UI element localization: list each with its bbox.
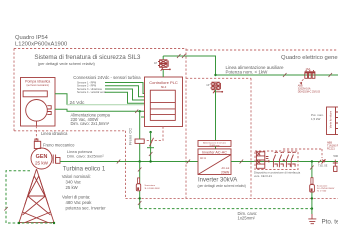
svg-text:Varie forniture: Varie forniture (329, 110, 333, 128)
contactor K1 Freno CC coil (128, 128, 145, 145)
surge arrester F1 (136, 162, 160, 209)
label Alimentazione pompa (71, 113, 111, 127)
svg-text:Tri 1 T100: Tri 1 T100 (317, 190, 327, 193)
enclosure Quadro IP54 label (15, 35, 67, 47)
PLC U1 controller box (145, 77, 183, 127)
svg-text:(se freno meccanico): (se freno meccanico) (27, 84, 50, 87)
svg-text:Inverter 30kVA: Inverter 30kVA (198, 178, 237, 184)
svg-text:20kW: 20kW (221, 170, 229, 174)
contact SPI 4 (291, 152, 295, 167)
wire 24Vdc (55, 94, 67, 105)
contact K1 (147, 131, 154, 162)
coupling generator output (53, 155, 60, 164)
svg-text:Connessioni 24Vdc - sensori tu: Connessioni 24Vdc - sensori turbina (73, 75, 141, 80)
svg-text:Freno CC: Freno CC (128, 128, 133, 145)
svg-text:Pto. terra: Pto. terra (322, 218, 338, 225)
svg-text:340 Vac: 340 Vac (66, 179, 82, 184)
wire sensor 2 (105, 86, 145, 97)
title Sistema di frenatura (34, 54, 141, 66)
label Connessioni sensori (73, 75, 141, 94)
surge arrester F2 (310, 162, 335, 215)
breaker Q1 1P (154, 60, 171, 71)
svg-text:(per dettagli vede schemi rela: (per dettagli vede schemi relativi) (198, 184, 246, 188)
svg-text:potenza sec. Inverter: potenza sec. Inverter (66, 205, 107, 210)
svg-text:T101 SE: T101 SE (318, 164, 328, 167)
power bus wire (60, 160, 198, 164)
svg-text:Pompa idraulica: Pompa idraulica (25, 79, 50, 83)
svg-text:Dim. cavo: 2x1,5mm²: Dim. cavo: 2x1,5mm² (71, 121, 110, 126)
wire coil to bus (139, 111, 141, 161)
svg-text:L1200xP600xA1900: L1200xP600xA1900 (15, 42, 67, 48)
svg-text:Controllore PLC: Controllore PLC (149, 80, 178, 85)
contact SPI 3 (286, 152, 290, 167)
wire service link (215, 146, 217, 149)
svg-text:24 Vdc: 24 Vdc (70, 100, 86, 106)
svg-text:3L L/10/40 500V: 3L L/10/40 500V (145, 188, 161, 190)
svg-text:Scaricatore: Scaricatore (145, 184, 156, 187)
svg-text:Inverter AC-AC: Inverter AC-AC (202, 150, 227, 154)
enclosure Quadro IP54 dashed outline (14, 49, 186, 199)
svg-text:Scaricatore: Scaricatore (317, 184, 328, 187)
earth bus dashed (140, 208, 312, 210)
svg-text:Turbina eolico 1: Turbina eolico 1 (63, 167, 106, 173)
svg-text:1P: 1P (154, 61, 157, 65)
brake B1 mechanical brake (34, 139, 40, 149)
svg-text:250W max: 250W max (210, 145, 221, 147)
wire sensor 3 (105, 89, 145, 100)
label Linea potenza (67, 149, 104, 158)
svg-text:1,5 kW: 1,5 kW (311, 117, 321, 121)
label SPI (254, 171, 301, 178)
wire 24Vdc auxiliary top (163, 54, 215, 75)
svg-text:25 kW: 25 kW (66, 185, 79, 190)
wire pump supply (55, 109, 145, 113)
ground symbol Pto terra (308, 214, 338, 225)
earth wire turbine dashed (4, 171, 55, 224)
junction inverter output (311, 160, 313, 162)
wire inverter output bus (231, 160, 338, 164)
svg-text:Quadro elettrico generale: Quadro elettrico generale (281, 55, 338, 61)
enclosure Quadro elettrico generale dashed outline (126, 50, 338, 198)
control dashed link PLC to contact and coil (144, 127, 163, 141)
svg-text:GEN: GEN (36, 154, 48, 160)
hydraulic line dashed (35, 126, 37, 141)
svg-text:1x25mm²: 1x25mm² (238, 216, 256, 221)
inverter U2 service supply box (198, 141, 231, 147)
contact SPI 1 (273, 152, 277, 167)
svg-text:vers. CEI 0-21: vers. CEI 0-21 (254, 174, 272, 178)
label Turbina eolico 1 (62, 167, 106, 211)
wire to inverter service (215, 90, 217, 141)
svg-text:Freno meccanico: Freno meccanico (43, 142, 75, 147)
switch SE right edge (333, 154, 338, 172)
svg-text:25 kW: 25 kW (35, 161, 49, 166)
svg-text:Potenza nom. < 1kW: Potenza nom. < 1kW (226, 69, 269, 74)
svg-text:Valori di punta:: Valori di punta: (62, 195, 90, 200)
generator G1 (31, 148, 52, 169)
svg-text:Dim. cavo: 3x25mm²: Dim. cavo: 3x25mm² (67, 154, 104, 159)
svg-text:Valori nominali:: Valori nominali: (62, 174, 91, 179)
pump P1 hydraulic pump box (21, 78, 56, 127)
label earth cable (238, 211, 258, 221)
service loads box right edge (311, 107, 338, 135)
inverter U2 AC-AC (198, 149, 231, 175)
wire SPI internal link (265, 160, 269, 163)
wire PLC top feed (162, 56, 164, 77)
svg-text:1P: 1P (206, 83, 209, 87)
wire sensor 4 (105, 92, 145, 103)
label breaker ABB T1N160 (327, 141, 338, 150)
junction SPI cross (283, 159, 285, 161)
svg-text:480 Vac peak: 480 Vac peak (66, 200, 93, 205)
contact SPI 2 (279, 152, 283, 167)
wire sensor 1 (105, 83, 145, 94)
SPI interface protection dashed box (255, 151, 298, 170)
junction auxiliary (214, 74, 216, 76)
breaker Q4 T101 (283, 149, 328, 167)
svg-text:Linea idraulica: Linea idraulica (41, 131, 68, 136)
svg-text:RC221: RC221 (327, 147, 335, 150)
wire linea alimentazione ausiliare (216, 73, 338, 77)
svg-text:AC in: AC in (200, 157, 207, 160)
label breaker 16A (298, 85, 321, 94)
svg-text:SIL3: SIL3 (161, 85, 167, 89)
breaker Q2 1P inverter service (206, 82, 223, 93)
svg-text:DDA202M-C 25/0,03: DDA202M-C 25/0,03 (298, 90, 321, 93)
svg-text:(per dettagli vede schemi rela: (per dettagli vede schemi relativi) (38, 61, 96, 66)
tower lattice (19, 169, 54, 223)
svg-text:Sensore 4 - velocità vento: Sensore 4 - velocità vento (77, 91, 107, 94)
svg-text:3L L/25/100 2000V: 3L L/25/100 2000V (317, 188, 335, 190)
wire stub (141, 116, 145, 118)
svg-text:500: 500 (333, 154, 338, 158)
label Inverter 30kVA (198, 178, 246, 188)
breaker Q3 16A MCB (300, 67, 315, 84)
svg-text:Quadro IP54: Quadro IP54 (15, 35, 49, 41)
label linea ausiliare (226, 65, 285, 74)
